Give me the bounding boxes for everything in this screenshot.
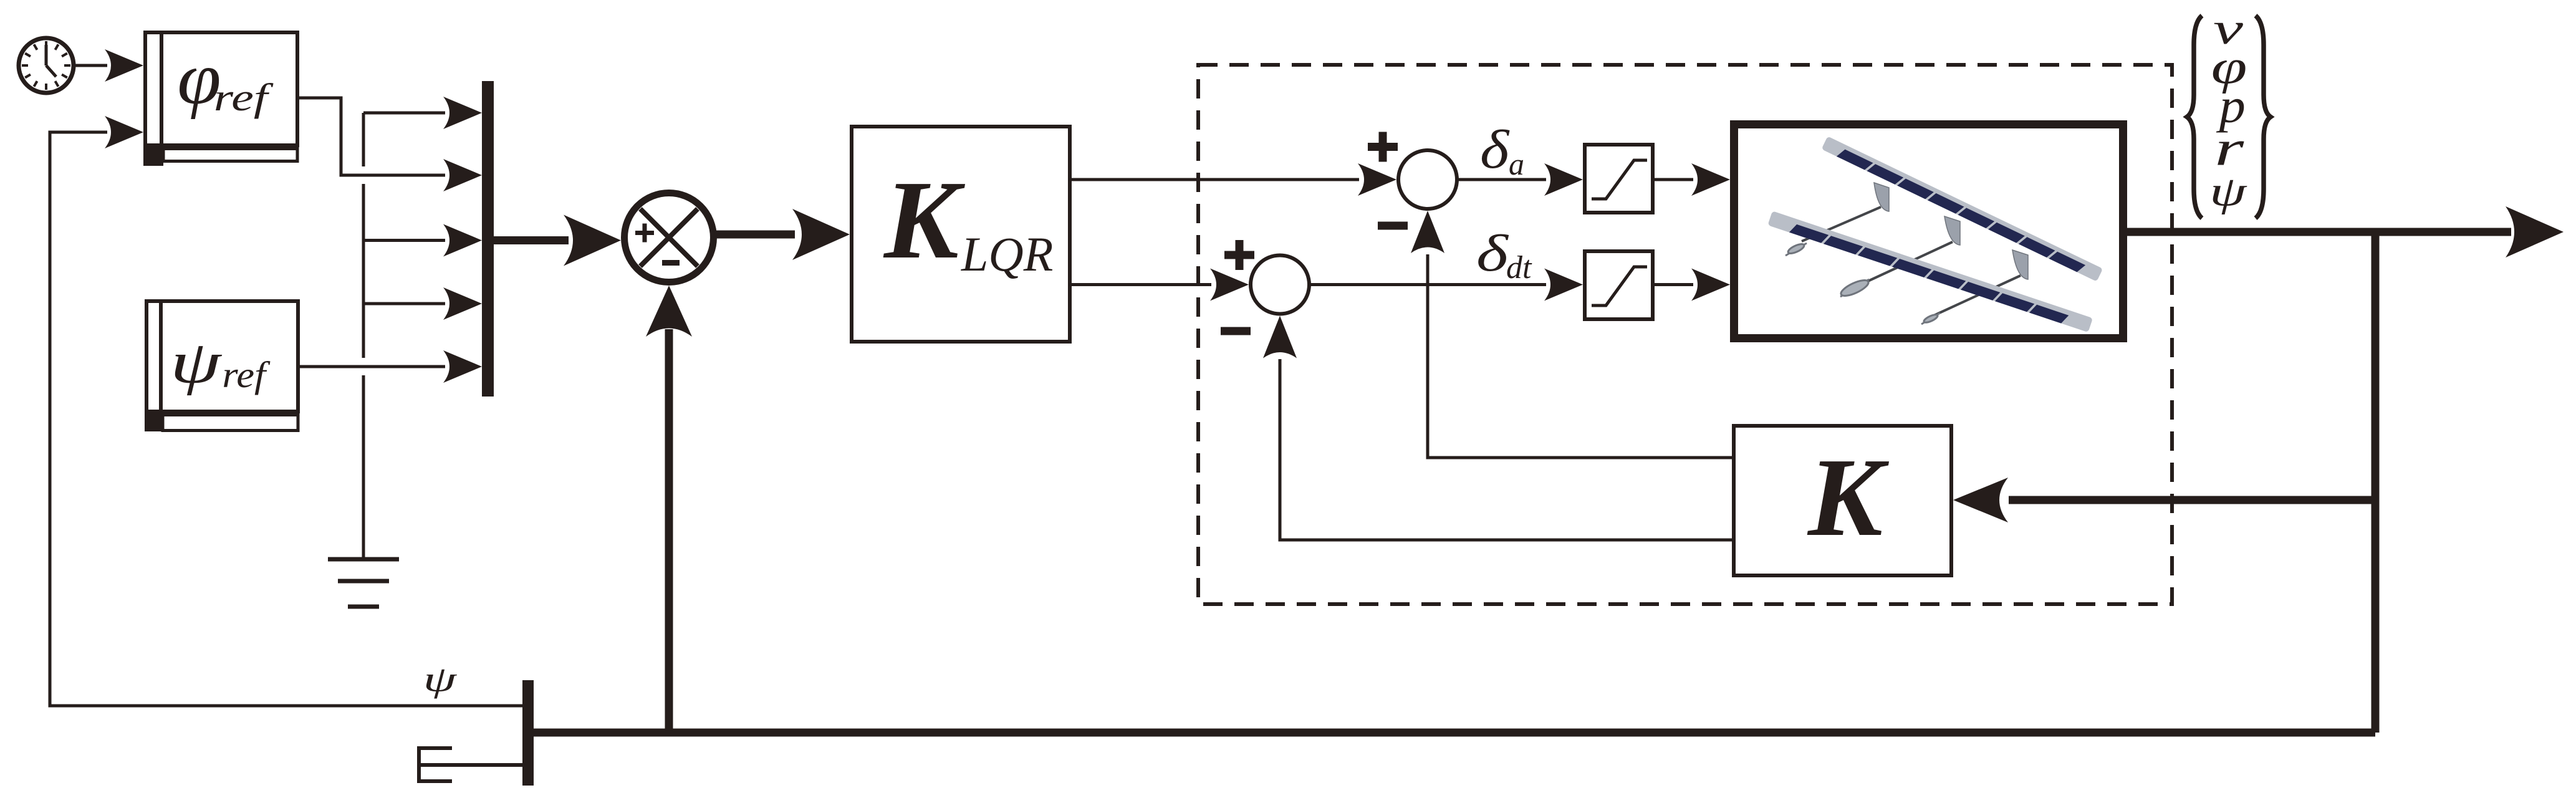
block K_LQR	[852, 127, 1070, 342]
wire K out1 to sum2 minus	[1428, 254, 1732, 458]
wire sat2 to plant	[1655, 283, 1693, 286]
wire gnd to mux row1	[363, 112, 445, 115]
label delta_a	[1480, 119, 1524, 181]
wire psi_ref to mux row5	[300, 365, 445, 368]
svg-text:a: a	[1509, 147, 1524, 181]
svg-text:LQR: LQR	[961, 227, 1053, 281]
wire sum1 to K_LQR	[713, 231, 795, 239]
wire sum1 minus feed	[665, 329, 673, 733]
svg-text:K: K	[1807, 435, 1890, 559]
ground	[328, 559, 399, 607]
label phi_ref	[177, 37, 274, 120]
wire sum3 to sat2	[1309, 283, 1546, 286]
aircraft fins	[1874, 183, 2028, 279]
block phi_ref	[143, 31, 297, 166]
wire K_LQR out1 to sum2	[1072, 178, 1359, 181]
aircraft propellers	[1785, 243, 1940, 324]
output brace right	[2256, 16, 2271, 218]
output brace left	[2187, 16, 2202, 218]
svg-text:ref: ref	[214, 76, 274, 119]
saturation block 1	[1585, 145, 1653, 213]
wire feedback to phi_ref input 2	[50, 132, 522, 706]
sum junction S2	[1368, 132, 1457, 230]
svg-text:ψ: ψ	[2209, 168, 2247, 215]
wire sum2 to sat1	[1457, 178, 1546, 181]
label psi_ref	[170, 329, 271, 396]
bottom feedback bus	[534, 729, 2375, 737]
saturation block 2	[1585, 251, 1653, 319]
wire K out2 to sum3 minus	[1280, 359, 1732, 540]
svg-text:δ: δ	[1476, 224, 1509, 282]
clock	[19, 38, 74, 93]
svg-text:ψ: ψ	[423, 660, 458, 700]
wire plant output	[2127, 228, 2511, 236]
wire feedback to K	[2009, 496, 2375, 504]
dashed subsystem box	[1198, 65, 2172, 604]
feedback vertical	[2372, 232, 2380, 733]
svg-text:ref: ref	[222, 355, 271, 396]
svg-text:K: K	[883, 158, 966, 282]
ground terminator E	[419, 746, 522, 783]
label delta_dt	[1476, 224, 1532, 286]
mux	[482, 81, 494, 397]
wire gnd to mux row3	[363, 239, 445, 242]
sum junction S3	[1221, 240, 1309, 335]
plant block	[1734, 125, 2123, 339]
block psi_ref	[145, 299, 298, 431]
svg-text:ψ: ψ	[170, 329, 223, 396]
wire mux to sum	[494, 236, 569, 244]
wire sat1 to plant	[1655, 178, 1693, 181]
label K_LQR	[883, 158, 1053, 282]
aircraft front wing	[1767, 211, 2093, 332]
svg-text:dt: dt	[1506, 250, 1532, 286]
wire gnd to mux row4	[363, 302, 445, 305]
aircraft rear wing	[1822, 136, 2103, 281]
grounded net vertical	[362, 113, 365, 166]
aircraft booms	[1802, 207, 2021, 315]
sum junction S1	[625, 193, 714, 282]
block K	[1734, 426, 1951, 575]
output state labels	[2209, 4, 2247, 215]
wire phi_ref to mux row2	[299, 98, 445, 175]
demux bar	[522, 680, 534, 786]
svg-text:δ: δ	[1480, 119, 1510, 180]
wire clock to phi_ref	[75, 64, 107, 67]
wire K_LQR out2 to sum3	[1072, 283, 1211, 286]
